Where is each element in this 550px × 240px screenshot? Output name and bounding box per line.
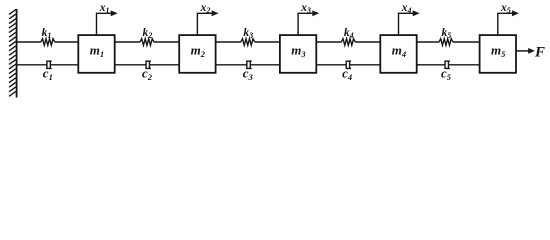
damper c4 (dashpot): [346, 61, 352, 69]
displacement arrow x1: [97, 13, 112, 35]
wire c1 to mass m1: [50, 64, 78, 66]
spring k2: [140, 39, 154, 46]
wire spring row to k1: [17, 41, 41, 43]
wire spring row to k3: [216, 41, 241, 43]
wire c3 to mass m3: [250, 64, 280, 66]
wire damper row to c1: [17, 64, 47, 66]
wire k2 to mass m2: [154, 41, 179, 43]
wire c2 to mass m2: [149, 64, 179, 66]
wire k1 to mass m1: [55, 41, 79, 43]
displacement arrow x3: [298, 13, 313, 35]
wire c4 to mass m4: [350, 64, 381, 66]
mass m2 box: [179, 35, 215, 73]
wire damper row to c2: [115, 64, 146, 66]
force arrow F: [516, 50, 529, 52]
wire damper row to c5: [417, 64, 445, 66]
wire damper row to c4: [316, 64, 346, 66]
wall hatching: [9, 9, 16, 96]
damper c5 (dashpot): [444, 61, 450, 69]
damper c1 (dashpot): [46, 61, 52, 69]
displacement arrow x4: [399, 13, 414, 35]
mass m1 box: [78, 35, 114, 73]
displacement arrow x2: [197, 13, 212, 35]
wire k5 to mass m5: [453, 41, 480, 43]
wire spring row to k4: [316, 41, 341, 43]
mass m5 box: [480, 35, 516, 73]
damper c2 (dashpot): [145, 61, 151, 69]
displacement arrow x5: [498, 13, 513, 35]
wire k4 to mass m4: [355, 41, 380, 43]
spring k1: [41, 39, 55, 46]
spring k3: [241, 39, 255, 46]
wire spring row to k2: [115, 41, 140, 43]
wire c5 to mass m5: [448, 64, 479, 66]
fixed wall (ground): [16, 9, 18, 98]
wire damper row to c3: [216, 64, 247, 66]
wire k3 to mass m3: [255, 41, 280, 43]
mass m3 box: [280, 35, 316, 73]
mass m4 box: [380, 35, 416, 73]
spring k4: [341, 39, 355, 46]
wire spring row to k5: [417, 41, 439, 43]
svg-text:F: F: [534, 45, 545, 61]
damper c3 (dashpot): [246, 61, 252, 69]
spring k5: [439, 39, 453, 46]
